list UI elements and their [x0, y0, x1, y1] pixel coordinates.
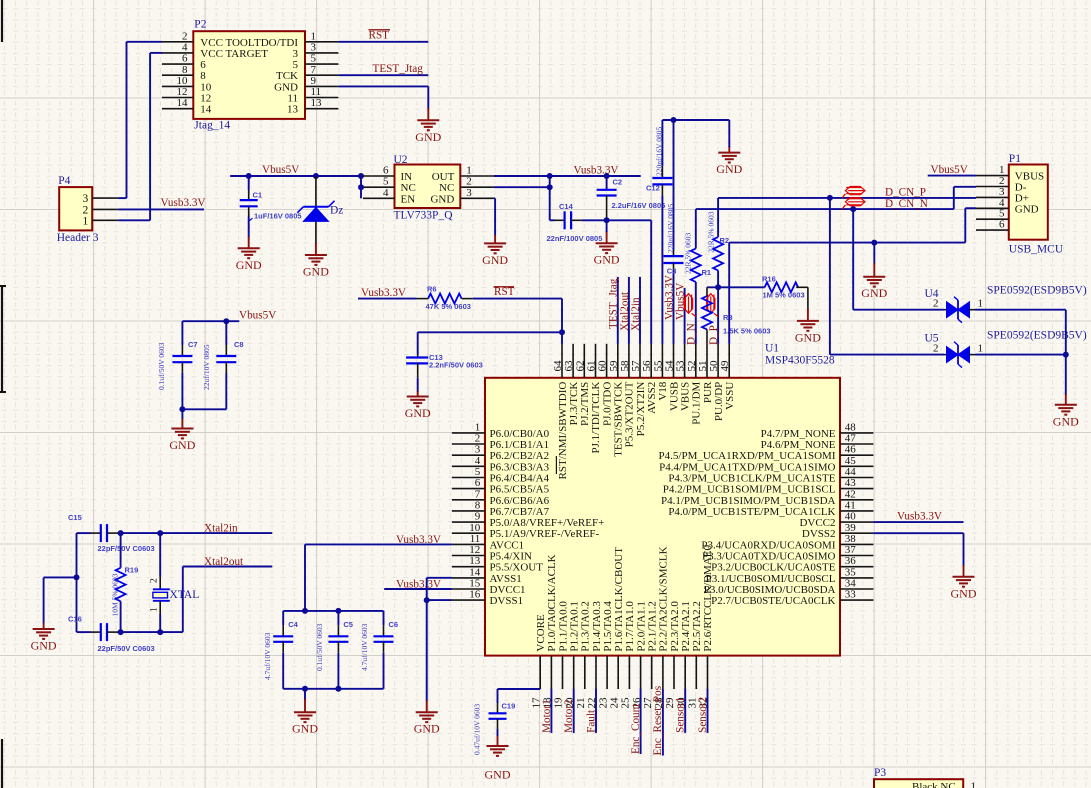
svg-text:PJ.1/TDI/TCLK: PJ.1/TDI/TCLK	[590, 382, 602, 454]
svg-text:C6: C6	[389, 620, 399, 629]
svg-text:GND: GND	[292, 722, 318, 736]
svg-text:C7: C7	[188, 340, 198, 349]
svg-text:MSP430F5528: MSP430F5528	[765, 355, 835, 367]
svg-text:11: 11	[311, 86, 322, 98]
svg-text:Black NC: Black NC	[912, 781, 956, 788]
svg-text:P3: P3	[874, 767, 886, 779]
svg-text:R2: R2	[720, 236, 730, 245]
svg-text:P4.4/PM_UCA1TXD/PM_UCA1SIMO: P4.4/PM_UCA1TXD/PM_UCA1SIMO	[659, 461, 835, 473]
svg-text:6: 6	[182, 53, 188, 65]
svg-text:Vusb3.3V: Vusb3.3V	[396, 579, 441, 591]
svg-text:C1: C1	[253, 191, 263, 200]
svg-text:1uF/16V 0805: 1uF/16V 0805	[254, 212, 302, 221]
svg-text:C5: C5	[343, 620, 353, 629]
svg-text:3: 3	[466, 187, 472, 199]
svg-text:P4: P4	[58, 175, 70, 187]
svg-text:11: 11	[287, 93, 298, 105]
svg-text:33: 33	[845, 589, 857, 601]
svg-text:GND: GND	[415, 130, 441, 144]
svg-text:SPE0592(ESD9B5V): SPE0592(ESD9B5V)	[987, 330, 1087, 342]
svg-text:12: 12	[200, 93, 211, 105]
svg-text:D_CN_P: D_CN_P	[885, 187, 926, 199]
svg-text:22R 5% 0603: 22R 5% 0603	[684, 233, 693, 275]
svg-text:6: 6	[999, 219, 1005, 231]
svg-text:4.7uf/10V 0603: 4.7uf/10V 0603	[360, 623, 369, 671]
svg-text:P5.1/A9/VREF-/VeREF-: P5.1/A9/VREF-/VeREF-	[490, 528, 600, 540]
svg-text:57: 57	[630, 360, 642, 372]
svg-text:GND: GND	[485, 768, 511, 782]
svg-text:40: 40	[845, 511, 857, 523]
svg-text:GND: GND	[795, 330, 821, 344]
svg-text:Motor2: Motor2	[563, 699, 575, 733]
svg-text:22pF/50V C0603: 22pF/50V C0603	[98, 544, 155, 553]
svg-text:GND: GND	[1053, 414, 1079, 428]
svg-text:P6.1/CB1/A1: P6.1/CB1/A1	[490, 439, 550, 451]
svg-text:Dz: Dz	[330, 205, 343, 217]
svg-text:37: 37	[845, 544, 857, 556]
svg-text:5: 5	[311, 53, 317, 65]
svg-text:14: 14	[200, 104, 212, 116]
svg-text:Enc_Count: Enc_Count	[630, 703, 642, 754]
svg-text:13: 13	[469, 555, 481, 567]
svg-text:63: 63	[563, 360, 575, 372]
svg-text:1: 1	[466, 165, 472, 177]
svg-text:Vusb3.3V: Vusb3.3V	[574, 165, 619, 177]
svg-text:R6: R6	[427, 285, 437, 294]
svg-text:2.2uF/16V 0805: 2.2uF/16V 0805	[612, 201, 666, 210]
svg-text:GND: GND	[1015, 203, 1039, 215]
svg-text:1M 5% 0603: 1M 5% 0603	[763, 291, 805, 300]
svg-text:2.2nF/50V 0603: 2.2nF/50V 0603	[429, 361, 483, 370]
svg-text:Vusb3.3V: Vusb3.3V	[161, 197, 206, 209]
svg-text:P3.2/UCB0CLK/UCA0STE: P3.2/UCB0CLK/UCA0STE	[711, 562, 836, 574]
svg-text:8: 8	[475, 499, 481, 511]
svg-text:6: 6	[383, 165, 389, 177]
svg-text:4.7uf/10V 0603: 4.7uf/10V 0603	[263, 632, 272, 680]
svg-text:Motor1: Motor1	[541, 699, 553, 733]
svg-text:Enc_Reset_Pos: Enc_Reset_Pos	[652, 686, 664, 756]
svg-text:2: 2	[933, 298, 939, 310]
svg-text:P6.3/CB3/A3: P6.3/CB3/A3	[490, 461, 550, 473]
svg-text:GND: GND	[594, 253, 620, 267]
svg-text:GND: GND	[861, 286, 887, 300]
svg-text:R8: R8	[723, 313, 733, 322]
svg-text:4: 4	[182, 41, 188, 53]
svg-text:OUT: OUT	[432, 171, 455, 183]
svg-text:EN: EN	[401, 193, 416, 205]
svg-text:P4.6/PM_NONE: P4.6/PM_NONE	[761, 439, 836, 451]
svg-text:C16: C16	[68, 615, 82, 624]
svg-text:GND: GND	[405, 406, 431, 420]
svg-text:U1: U1	[765, 343, 779, 355]
svg-text:P1: P1	[1009, 153, 1021, 165]
svg-text:C2: C2	[613, 178, 623, 187]
svg-text:60: 60	[597, 360, 609, 372]
svg-text:P5.4/XIN: P5.4/XIN	[490, 551, 533, 563]
svg-text:C8: C8	[234, 340, 244, 349]
svg-text:1: 1	[150, 607, 160, 612]
svg-text:2: 2	[150, 578, 160, 583]
svg-text:53: 53	[675, 360, 687, 372]
svg-text:Fault: Fault	[585, 709, 597, 733]
svg-text:13: 13	[311, 97, 323, 109]
svg-text:47: 47	[845, 433, 857, 445]
svg-text:10M 5% 0603: 10M 5% 0603	[111, 573, 120, 616]
svg-text:P6.5/CB5/A5: P6.5/CB5/A5	[490, 484, 550, 496]
svg-text:52: 52	[686, 361, 698, 372]
svg-text:16: 16	[469, 589, 481, 601]
svg-text:P2.2/TA2CLK/SMCLK: P2.2/TA2CLK/SMCLK	[658, 546, 670, 651]
svg-text:Xtal2out: Xtal2out	[204, 556, 244, 568]
svg-text:0.47uf/10V 0603: 0.47uf/10V 0603	[473, 704, 482, 755]
svg-text:GND: GND	[303, 265, 329, 279]
svg-text:220nf/16V 0805: 220nf/16V 0805	[666, 204, 675, 253]
svg-text:Sensor2: Sensor2	[697, 697, 709, 733]
svg-text:VCC TARGET: VCC TARGET	[200, 48, 268, 60]
svg-text:P4.1/PM_UCB1SIMO/PM_UCB1SDA: P4.1/PM_UCB1SIMO/PM_UCB1SDA	[661, 495, 836, 507]
svg-text:P1.6/TA1CLK/CBOUT: P1.6/TA1CLK/CBOUT	[613, 547, 625, 652]
svg-text:C15: C15	[68, 513, 82, 522]
svg-text:D_CN_N: D_CN_N	[885, 198, 928, 210]
svg-text:Vusb3.3V: Vusb3.3V	[396, 534, 441, 546]
svg-text:P6.6/CB6/A6: P6.6/CB6/A6	[490, 495, 550, 507]
svg-text:P5.2/XT2IN: P5.2/XT2IN	[635, 382, 647, 437]
svg-text:4: 4	[383, 187, 389, 199]
svg-text:P1.0/TA0CLK/ACLK: P1.0/TA0CLK/ACLK	[546, 554, 558, 651]
svg-text:C14: C14	[559, 202, 574, 211]
svg-text:2: 2	[933, 343, 939, 355]
svg-text:P1.3/TA0.2: P1.3/TA0.2	[580, 601, 592, 651]
svg-text:IN: IN	[401, 171, 413, 183]
svg-text:P2: P2	[194, 19, 206, 31]
svg-text:GND: GND	[951, 586, 977, 600]
svg-text:56: 56	[641, 360, 653, 372]
svg-text:43: 43	[845, 477, 857, 489]
svg-text:6: 6	[475, 477, 481, 489]
svg-text:C4: C4	[288, 620, 298, 629]
svg-text:Vbus5V: Vbus5V	[931, 164, 968, 176]
svg-text:Header 3: Header 3	[57, 232, 99, 244]
svg-text:D_P: D_P	[708, 325, 720, 345]
svg-text:Vbus5V: Vbus5V	[239, 310, 276, 322]
svg-text:45: 45	[845, 455, 857, 467]
svg-text:62: 62	[574, 361, 586, 372]
svg-text:P1.1/TA0.0: P1.1/TA0.0	[557, 601, 569, 652]
svg-text:R1: R1	[702, 268, 712, 277]
svg-text:23: 23	[597, 697, 609, 709]
svg-text:P1.7/TA1.0: P1.7/TA1.0	[624, 601, 636, 652]
svg-text:XTAL: XTAL	[170, 589, 200, 601]
svg-text:PU.1/DM: PU.1/DM	[691, 381, 703, 424]
svg-text:P2.3/TA2.0: P2.3/TA2.0	[669, 601, 681, 652]
svg-text:Jtag_14: Jtag_14	[194, 120, 230, 132]
svg-text:C19: C19	[502, 702, 516, 711]
svg-text:2: 2	[475, 433, 481, 445]
svg-text:TCK: TCK	[276, 70, 298, 82]
svg-text:22R 5% 0603: 22R 5% 0603	[707, 211, 716, 253]
svg-text:1: 1	[978, 343, 984, 355]
svg-text:TLV733P_Q: TLV733P_Q	[394, 210, 454, 222]
svg-text:13: 13	[287, 104, 299, 116]
svg-text:1: 1	[82, 215, 88, 227]
svg-text:1: 1	[978, 298, 984, 310]
svg-text:GND: GND	[482, 253, 508, 267]
svg-text:D_N: D_N	[686, 323, 698, 345]
svg-text:4: 4	[475, 455, 481, 467]
svg-text:P3.3/UCA0TXD/UCA0SIMO: P3.3/UCA0TXD/UCA0SIMO	[702, 551, 836, 563]
svg-text:3: 3	[293, 48, 299, 60]
svg-text:USB_MCU: USB_MCU	[1009, 244, 1064, 256]
svg-text:VBUS: VBUS	[679, 382, 691, 411]
svg-text:47K 5% 0603: 47K 5% 0603	[426, 302, 471, 311]
svg-text:3: 3	[311, 41, 317, 53]
svg-text:49: 49	[719, 360, 731, 372]
svg-text:TEST_Jtag: TEST_Jtag	[608, 278, 620, 329]
svg-text:Xtal2in: Xtal2in	[204, 523, 238, 535]
svg-text:P2.7/UCB0STE/UCA0CLK: P2.7/UCB0STE/UCA0CLK	[711, 595, 835, 607]
svg-text:22pF/50V C0603: 22pF/50V C0603	[98, 644, 155, 653]
svg-text:P4.2/PM_UCB1SOMI/PM_UCB1SCL: P4.2/PM_UCB1SOMI/PM_UCB1SCL	[663, 484, 836, 496]
svg-text:TEST/SBWTCK: TEST/SBWTCK	[613, 382, 625, 457]
svg-text:220nf/16V 0805: 220nf/16V 0805	[655, 127, 664, 176]
svg-text:SPE0592(ESD9B5V): SPE0592(ESD9B5V)	[987, 285, 1087, 297]
svg-text:V18: V18	[657, 381, 669, 400]
svg-text:C3: C3	[667, 267, 677, 276]
svg-text:Vbus5V: Vbus5V	[262, 164, 299, 176]
svg-text:12: 12	[177, 86, 188, 98]
svg-text:C12: C12	[646, 184, 660, 193]
svg-text:GND: GND	[31, 639, 57, 653]
svg-text:GND: GND	[236, 258, 262, 272]
svg-text:U2: U2	[394, 154, 408, 166]
svg-text:36: 36	[845, 555, 857, 567]
svg-text:GND: GND	[716, 162, 742, 176]
svg-text:21: 21	[575, 698, 587, 709]
svg-text:PJ.3/TCK: PJ.3/TCK	[568, 382, 580, 426]
svg-text:0.1uf/50V 0603: 0.1uf/50V 0603	[315, 623, 324, 671]
svg-text:3: 3	[82, 193, 88, 205]
svg-text:RST: RST	[369, 30, 390, 42]
svg-text:P5.5/XOUT: P5.5/XOUT	[490, 562, 544, 574]
svg-text:8: 8	[200, 70, 206, 82]
svg-text:DVSS2: DVSS2	[802, 528, 836, 540]
svg-text:9: 9	[475, 511, 481, 523]
svg-text:41: 41	[845, 499, 856, 511]
svg-text:R19: R19	[125, 566, 139, 575]
svg-text:TEST_Jtag: TEST_Jtag	[373, 63, 424, 75]
svg-text:12: 12	[469, 544, 480, 556]
svg-text:R16: R16	[762, 275, 776, 284]
svg-text:GND: GND	[169, 438, 195, 452]
svg-text:14: 14	[177, 97, 189, 109]
svg-text:Sensor1: Sensor1	[675, 697, 687, 733]
svg-text:GND: GND	[430, 193, 454, 205]
svg-text:RST: RST	[494, 286, 515, 298]
svg-text:22uf/10V 0805: 22uf/10V 0805	[202, 344, 211, 390]
svg-text:22nF/100V 0805: 22nF/100V 0805	[547, 234, 603, 243]
svg-text:Xtal2out: Xtal2out	[619, 291, 631, 331]
svg-text:Xtal2in: Xtal2in	[630, 297, 642, 331]
svg-text:DVSS1: DVSS1	[490, 595, 524, 607]
svg-text:GND: GND	[414, 722, 440, 736]
svg-text:Vusb3.3V: Vusb3.3V	[897, 511, 942, 523]
svg-text:P2.6/RTCCLK/DMAE0: P2.6/RTCCLK/DMAE0	[702, 544, 714, 651]
svg-text:Vusb3.3V: Vusb3.3V	[361, 287, 406, 299]
svg-text:1: 1	[971, 781, 977, 788]
svg-text:0.1uf/50V 0603: 0.1uf/50V 0603	[157, 342, 166, 390]
svg-text:VSSU: VSSU	[724, 382, 736, 410]
